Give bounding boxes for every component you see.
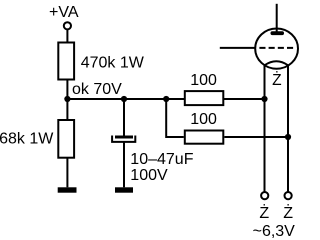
wire node A to capacitor xyxy=(123,99,125,136)
right heater lead wire xyxy=(287,65,289,192)
capacitor 10-47uF positive plate xyxy=(115,136,133,139)
tube grid lead xyxy=(220,47,256,49)
junction dot at resistor branch xyxy=(163,96,169,102)
resistor 470k 1W body xyxy=(58,43,74,80)
svg-text:100V: 100V xyxy=(130,167,168,184)
ground under 68k xyxy=(58,187,77,192)
junction dot at right heater lead xyxy=(285,134,291,140)
svg-text:Ż: Ż xyxy=(283,203,293,222)
resistor 100 top body xyxy=(185,91,224,105)
ground under capacitor xyxy=(115,187,133,192)
junction dot at capacitor branch xyxy=(121,96,127,102)
svg-text:Ż: Ż xyxy=(259,203,269,222)
svg-text:470k 1W: 470k 1W xyxy=(81,54,145,71)
svg-text:68k 1W: 68k 1W xyxy=(0,131,54,148)
wire capacitor to ground xyxy=(123,143,125,188)
tube anode lead xyxy=(276,4,278,33)
left heater lead wire xyxy=(264,65,266,192)
tube anode plate xyxy=(271,31,285,35)
terminal heater right xyxy=(285,192,292,199)
terminal heater left xyxy=(261,192,268,199)
capacitor 10-47uF negative cup xyxy=(112,136,135,142)
wire terminal to R 470k xyxy=(66,30,68,43)
svg-text:~6,3V: ~6,3V xyxy=(253,223,296,239)
svg-text:+VA: +VA xyxy=(49,4,79,21)
wire R 68k to ground xyxy=(66,158,68,188)
junction dot at left heater lead xyxy=(261,96,267,102)
svg-text:Ż: Ż xyxy=(272,71,281,89)
vacuum tube envelope xyxy=(255,28,298,68)
tube heater filament dome xyxy=(265,61,289,65)
main horizontal wire node A xyxy=(67,98,264,100)
wire node A to R 68k xyxy=(66,99,68,120)
resistor 100 bottom body xyxy=(185,131,224,144)
svg-text:100: 100 xyxy=(190,72,217,89)
svg-text:10–47uF: 10–47uF xyxy=(130,151,193,168)
svg-text:100: 100 xyxy=(190,111,217,128)
tube grid dashed electrode xyxy=(259,47,293,49)
wire node A down to R100 bottom xyxy=(166,99,184,137)
terminal +VA xyxy=(64,22,71,29)
wire R100 bottom to right heater lead xyxy=(224,136,288,138)
resistor 68k 1W body xyxy=(58,120,74,158)
wire R 470k to node A xyxy=(66,80,68,100)
svg-text:ok 70V: ok 70V xyxy=(72,81,122,98)
junction dot at divider tap xyxy=(64,96,70,102)
wire R100 top to left heater lead xyxy=(224,98,264,100)
